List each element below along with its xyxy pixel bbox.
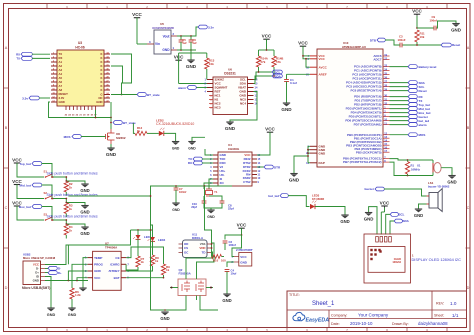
svg-text:K: K <box>100 88 102 92</box>
svg-text:AREF: AREF <box>319 73 327 77</box>
svg-text:GND: GND <box>68 313 77 317</box>
svg-text:TD: TD <box>202 251 206 255</box>
LED LED1 charge <box>133 230 152 239</box>
capacitor C6 1uf <box>189 36 197 50</box>
wire AREF to decoupling cap <box>287 74 311 79</box>
wire alarm to SQW/INT <box>196 87 207 89</box>
svg-text:GND: GND <box>451 28 461 33</box>
svg-text:2019-10-10: 2019-10-10 <box>350 321 373 326</box>
svg-text:buzzer YD-58002: buzzer YD-58002 <box>428 185 450 189</box>
svg-text:VCC: VCC <box>132 12 142 17</box>
svg-text:GND: GND <box>186 64 197 69</box>
svg-text:ATMEGA328P-AU: ATMEGA328P-AU <box>342 45 366 49</box>
net flag BT_state at transistor <box>113 121 136 125</box>
svg-text:100nf: 100nf <box>430 18 437 22</box>
power flag VCC for I2C pullups <box>259 34 275 51</box>
svg-text:CE: CE <box>115 256 119 260</box>
power flag VCC button Top_but <box>12 157 44 177</box>
svg-text:Reset: Reset <box>419 89 427 93</box>
net flag 3.3v to HC-06 <box>22 96 50 100</box>
wire VCC distribution rail <box>68 185 232 197</box>
crystal Y1 12MHz for CH340 <box>204 179 218 196</box>
label side push button 3 <box>47 214 98 218</box>
svg-text:0.1uf: 0.1uf <box>290 81 297 85</box>
net flag D- <box>45 271 62 275</box>
wire Vout rail to 3.3v flag <box>177 27 198 51</box>
ground DS3231 <box>225 92 257 132</box>
svg-text:Your Company: Your Company <box>358 313 389 318</box>
net flag alarm <box>178 86 196 90</box>
ground for C1 <box>281 103 292 112</box>
resistor R13 10k pull-up <box>179 53 215 80</box>
svg-text:GND: GND <box>160 316 169 321</box>
svg-text:1.2k: 1.2k <box>75 293 81 297</box>
svg-text:TEMP: TEMP <box>94 256 102 260</box>
svg-text:VCC: VCC <box>240 255 247 259</box>
capacitor C8 22pf <box>209 196 234 211</box>
svg-text:NC3: NC3 <box>215 106 221 110</box>
capacitor C2 100nf <box>223 235 242 250</box>
wires crystal to MCU XTAL pins <box>390 159 434 177</box>
net flag RX <box>390 95 423 99</box>
power flag VCC near DS3231 <box>174 55 207 84</box>
wire USB VCC rail <box>45 230 131 265</box>
svg-text:buzzer: buzzer <box>364 187 374 191</box>
svg-text:B: B <box>467 126 470 130</box>
switch S2 side push button <box>44 191 54 199</box>
svg-text:GND: GND <box>414 213 423 218</box>
svg-text:GND: GND <box>96 100 102 104</box>
svg-text:REV:: REV: <box>436 302 444 306</box>
svg-text:NC4: NC4 <box>240 102 246 106</box>
net flag Box_but <box>390 111 431 115</box>
net flag Top_but <box>390 103 431 107</box>
resistor R14B 57k <box>272 50 283 76</box>
ground for crystal <box>447 176 456 185</box>
net flag DTR out <box>257 165 281 169</box>
svg-text:TX: TX <box>16 57 20 61</box>
power flag VCC for MCU <box>298 41 310 68</box>
svg-text:GND: GND <box>94 269 102 273</box>
transistor U8 SI2302 MOSFET <box>106 129 126 144</box>
svg-text:22pf: 22pf <box>191 205 197 209</box>
svg-text:1k: 1k <box>155 259 159 263</box>
svg-text:CH340G: CH340G <box>228 147 240 151</box>
resistor R12 1k <box>135 126 147 135</box>
svg-text:1k: 1k <box>166 268 170 272</box>
svg-text:16MHz: 16MHz <box>411 168 420 172</box>
svg-text:D: D <box>467 286 470 290</box>
capacitor C9 100nf <box>417 15 456 30</box>
svg-text:GND: GND <box>172 208 180 212</box>
svg-text:A: A <box>5 46 8 50</box>
resistor R4 1k <box>64 224 73 239</box>
svg-text:GND: GND <box>225 126 236 131</box>
svg-text:TITLE:: TITLE: <box>289 293 300 297</box>
svg-text:/STDBY: /STDBY <box>109 269 120 273</box>
svg-text:1uf: 1uf <box>182 41 186 45</box>
svg-text:CX-3216UBUCK-520D10: CX-3216UBUCK-520D10 <box>156 122 194 126</box>
power flag VCC button Box_but <box>12 200 44 220</box>
svg-text:GND: GND <box>447 180 456 185</box>
svg-text:/CHRG: /CHRG <box>110 263 120 267</box>
ground for R6 <box>68 308 77 317</box>
ground for R3 <box>65 202 89 215</box>
ground for MCU <box>289 174 300 183</box>
svg-text:Box_but: Box_but <box>19 205 31 209</box>
EasyEDA logo <box>293 312 329 323</box>
net flag SCL at pullups <box>272 70 282 74</box>
resistor R3 1k <box>64 203 73 218</box>
svg-text:XC6206P332MR: XC6206P332MR <box>152 26 175 30</box>
svg-text:Mid_but: Mid_but <box>20 183 32 187</box>
svg-text:1k: 1k <box>69 228 73 232</box>
wire charge status rail <box>131 229 153 233</box>
svg-text:D-: D- <box>58 267 61 271</box>
ground for buzzer <box>414 209 423 218</box>
svg-text:VCC: VCC <box>298 41 308 46</box>
wire battery level <box>390 66 409 68</box>
crystal X1 16MHz <box>433 160 452 176</box>
svg-text:SDA: SDA <box>275 74 282 78</box>
svg-text:MOS: MOS <box>64 135 71 139</box>
ground for R2 <box>65 180 89 193</box>
speaker LS1 buzzer YD-58002 <box>384 181 450 211</box>
svg-text:57k: 57k <box>261 60 266 64</box>
IC U6 DS3231 RTC <box>205 67 258 114</box>
net flag SCL <box>390 85 425 89</box>
connector P1 2 PIN PORT <box>227 235 253 267</box>
svg-text:Vout: Vout <box>163 34 171 38</box>
wire button Top_but to resistor <box>53 176 67 181</box>
resistor R2 1k <box>64 181 73 196</box>
net flag Mid_but <box>20 183 53 199</box>
svg-text:Y1: Y1 <box>214 190 218 194</box>
wire VCC pin of charger <box>68 271 87 281</box>
ground below U8 <box>106 144 117 157</box>
power flag VCC at port <box>237 223 247 236</box>
svg-text:GND: GND <box>281 107 292 112</box>
svg-text:GND: GND <box>80 231 89 236</box>
svg-text:C: C <box>5 206 8 210</box>
svg-text:100nF: 100nF <box>398 38 406 42</box>
wire USB GND rail <box>45 280 88 282</box>
net flag D+ <box>45 266 61 270</box>
svg-text:GND: GND <box>188 147 196 151</box>
net flag Reset <box>390 89 427 93</box>
svg-text:LS1: LS1 <box>428 181 434 185</box>
ground for C7 <box>172 203 180 212</box>
net flag buzzer <box>390 115 429 119</box>
svg-text:GND: GND <box>340 219 349 224</box>
svg-text:D+: D+ <box>58 271 62 275</box>
svg-text:HC-06: HC-06 <box>75 45 84 49</box>
wire R7 to CHRG pin <box>126 264 138 270</box>
svg-text:GND: GND <box>319 151 327 155</box>
IC U7 TP4056 charger <box>85 242 129 291</box>
ground rail mid sheet <box>188 137 205 150</box>
wires SCL SDA from DS3231 to flags <box>254 71 275 83</box>
wire LED3 to ground <box>315 207 345 216</box>
wire battery minus through Q2 <box>164 296 218 311</box>
svg-text:CS: CS <box>184 246 188 250</box>
svg-text:VCC: VCC <box>94 276 101 280</box>
resistor R8 1k <box>150 241 159 266</box>
net flag but_led <box>268 194 309 207</box>
svg-text:VCC: VCC <box>265 127 275 132</box>
svg-text:Sheet:: Sheet: <box>434 314 444 318</box>
svg-text:Date:: Date: <box>331 322 340 326</box>
wire TEMP to gnd <box>83 258 88 288</box>
svg-text:TP4056A: TP4056A <box>105 245 118 249</box>
title block <box>287 291 467 328</box>
ground battery minus <box>160 312 169 321</box>
wire CH340 gnd <box>205 149 213 155</box>
svg-text:VCC: VCC <box>412 9 422 14</box>
svg-text:GND: GND <box>172 147 180 151</box>
IC U3 HC-06 bluetooth module <box>51 41 110 116</box>
net flag SDA at OLED <box>390 219 410 234</box>
svg-text:1k: 1k <box>69 207 73 211</box>
wire BT_state to R12 <box>133 123 135 133</box>
svg-text:CTS#: CTS# <box>243 180 251 184</box>
svg-text:R10: R10 <box>213 259 219 263</box>
svg-text:1uf: 1uf <box>192 41 196 45</box>
svg-text:GND: GND <box>207 215 215 219</box>
transistor Q2 FS8205A dual mosfet <box>170 266 213 296</box>
svg-text:FS8205A: FS8205A <box>179 271 192 275</box>
svg-text:ADC7: ADC7 <box>373 58 381 62</box>
net flag Reset top <box>441 43 460 47</box>
net flag Battery level <box>408 65 437 69</box>
label side push button 2 <box>47 193 98 197</box>
svg-text:Micro USB-B SP_CA0648: Micro USB-B SP_CA0648 <box>23 256 56 260</box>
svg-text:PROG: PROG <box>94 263 104 267</box>
ground for crystal caps <box>207 208 215 219</box>
net flag BT_state at HC-06 <box>111 93 160 97</box>
net flag SDA at pullups <box>272 74 282 78</box>
net flag Box_but <box>19 205 53 221</box>
svg-text:VCC: VCC <box>262 34 272 39</box>
wire CE pin loop <box>126 247 163 258</box>
svg-text:VCC: VCC <box>319 57 326 61</box>
svg-text:BT_state: BT_state <box>123 121 136 125</box>
net flag TX to CH340 <box>188 157 213 161</box>
net flag TX <box>16 57 50 61</box>
resistor R14A 57k <box>256 50 268 72</box>
net flag SDA <box>390 81 426 85</box>
power flag VCC feeding regulator <box>132 12 147 44</box>
svg-text:GND: GND <box>222 298 231 303</box>
svg-text:DAP: DAP <box>319 161 325 165</box>
capacitor C5 1uf <box>179 36 187 50</box>
wire USB shell to ground <box>45 277 51 309</box>
IC U4 CH340G usb-serial <box>210 143 261 186</box>
svg-text:alarm: alarm <box>178 86 186 90</box>
svg-text:MOS: MOS <box>419 133 426 137</box>
ground for LED2 <box>172 142 180 151</box>
svg-text:22pf: 22pf <box>228 207 234 211</box>
power flag VCC button Mid_but <box>12 179 44 199</box>
svg-text:alarm: alarm <box>419 123 427 127</box>
IC U5 XC6206P332MR regulator <box>147 22 177 54</box>
svg-text:DTB: DTB <box>370 38 377 42</box>
label side push button 1 <box>47 171 98 175</box>
ground for regulator output caps <box>186 50 197 69</box>
svg-text:VDD: VDD <box>199 246 205 250</box>
svg-text:100: 100 <box>221 259 226 263</box>
svg-text:RX: RX <box>188 161 192 165</box>
svg-text:DW01-A: DW01-A <box>192 236 204 240</box>
svg-text:10k: 10k <box>420 35 425 39</box>
svg-text:PD7 (PCINT23AIN1): PD7 (PCINT23AIN1) <box>354 123 382 127</box>
svg-text:GND: GND <box>33 279 39 283</box>
svg-text:EasyEDA: EasyEDA <box>306 317 330 323</box>
IC U11 DW01-A battery protection <box>179 232 212 257</box>
resistor R11 10k <box>415 30 425 45</box>
capacitor C4 10uf <box>225 268 237 294</box>
svg-text:LED3: LED3 <box>312 193 320 197</box>
wires MCU ground pins to ground <box>294 146 310 173</box>
net flag MOS <box>390 133 426 137</box>
net flag RX to CH340 <box>188 161 213 165</box>
power flag VCC reset pullup <box>412 9 422 29</box>
net flag buzzer <box>364 187 384 191</box>
connector DISPLAY OLED 128X64 I2C <box>364 234 461 283</box>
net flag 3.3v output <box>198 25 214 29</box>
svg-text:PB7 (PCINT7XTAL2TOSC2): PB7 (PCINT7XTAL2TOSC2) <box>343 160 382 164</box>
ground for OLED <box>364 207 377 235</box>
svg-text:GND: GND <box>106 152 117 157</box>
resistor R9 1k <box>161 258 170 275</box>
svg-text:PB5 (SCKPCINT5): PB5 (SCKPCINT5) <box>356 150 382 154</box>
svg-text:Side push button and 8mm holes: Side push button and 8mm holes <box>47 171 98 175</box>
net flag Top_but <box>19 162 53 178</box>
svg-text:1/1: 1/1 <box>452 313 459 318</box>
resistor R7 1k <box>136 239 145 267</box>
wire button Mid_but to resistor <box>53 198 67 203</box>
net flag SCL at OLED <box>386 213 405 235</box>
svg-text:BT_state: BT_state <box>147 93 160 97</box>
svg-text:PC6 (RESETPCINT14): PC6 (RESETPCINT14) <box>350 89 381 93</box>
svg-text:GND: GND <box>162 48 170 52</box>
capacitor C7 100nf <box>174 186 187 203</box>
svg-text:GND: GND <box>240 260 248 264</box>
svg-text:GND: GND <box>289 178 300 183</box>
svg-text:USB2: USB2 <box>23 252 31 256</box>
svg-text:3.3v: 3.3v <box>22 96 28 100</box>
svg-text:DISPLAY OLED 128X64 I2C: DISPLAY OLED 128X64 I2C <box>412 257 462 262</box>
ground for R4 <box>65 223 89 236</box>
svg-text:Drawn By:: Drawn By: <box>392 322 409 326</box>
svg-text:daizykhanna08: daizykhanna08 <box>418 321 448 326</box>
svg-text:A: A <box>467 46 470 50</box>
resistor R6 1.2k prog <box>70 281 81 309</box>
wire reset node <box>403 44 442 46</box>
IC U10 ATMEGA328P-AU microcontroller <box>306 41 389 167</box>
wire battery rail <box>68 196 164 310</box>
net flag RX <box>16 52 50 56</box>
svg-text:D: D <box>5 286 8 290</box>
svg-text:Sheet_1: Sheet_1 <box>312 301 335 307</box>
net flag TX <box>390 99 423 103</box>
svg-text:AVCC: AVCC <box>319 65 328 69</box>
svg-text:VCC: VCC <box>237 223 247 228</box>
svg-text:3.3v: 3.3v <box>208 25 214 29</box>
wire HC-06 bottom ground bus <box>49 102 112 118</box>
capacitor C3 100nF in DTR line <box>398 35 406 48</box>
svg-text:57k: 57k <box>276 60 281 64</box>
svg-text:1.0: 1.0 <box>450 301 457 306</box>
svg-text:KT-0603R: KT-0603R <box>312 197 324 201</box>
net flag Mid_but <box>390 107 431 111</box>
connector USB2 Micro USB-B SP_CA0648 <box>22 252 56 290</box>
svg-text:Company:: Company: <box>331 313 347 317</box>
net flag but_led <box>390 119 430 123</box>
svg-text:Reset: Reset <box>452 43 460 47</box>
svg-text:Vin: Vin <box>155 42 160 46</box>
wire BT_state node to transistor drain <box>110 118 112 130</box>
svg-text:Top_but: Top_but <box>19 162 31 166</box>
LED LED4 charge <box>148 230 166 242</box>
svg-text:GND: GND <box>47 313 56 317</box>
svg-text:100nf: 100nf <box>229 243 236 247</box>
svg-text:1k: 1k <box>141 260 145 264</box>
svg-text:GND: GND <box>364 217 374 222</box>
wire LED2 to ground <box>164 133 176 141</box>
capacitor C1 0.1uf <box>284 78 297 103</box>
svg-text:Battery level: Battery level <box>419 65 437 69</box>
wire button Box_but to resistor <box>53 219 67 224</box>
ground for LED3 <box>340 215 349 224</box>
resistor R10 100Ohm <box>205 186 227 263</box>
wire DW01 to gate of Q2 <box>186 243 214 272</box>
ground top right <box>451 24 461 33</box>
power flag VCC for CH340 <box>257 127 276 156</box>
net flag DTB <box>370 38 400 45</box>
wire R9 to BAT pin <box>126 275 164 279</box>
svg-text:DS3231: DS3231 <box>224 72 236 76</box>
net flag alarm <box>390 123 427 127</box>
capacitor C10 22pf <box>191 196 211 209</box>
switch S3 side push button <box>44 212 54 220</box>
svg-text:100nf: 100nf <box>179 190 186 194</box>
ground for C4 <box>222 294 231 303</box>
svg-text:SCL: SCL <box>399 213 405 217</box>
switch S1 side push button <box>44 169 54 177</box>
svg-text:BAT: BAT <box>114 276 120 280</box>
LED LED3 KT-0603R <box>310 193 324 209</box>
svg-text:LED4: LED4 <box>158 238 166 242</box>
wires HC-06 right side loop <box>111 54 132 95</box>
svg-text:128x64: 128x64 <box>392 260 401 264</box>
svg-text:SDA: SDA <box>403 219 410 223</box>
svg-text:10uf: 10uf <box>231 271 237 275</box>
svg-text:SI2302: SI2302 <box>116 136 126 140</box>
svg-text:C: C <box>467 206 470 210</box>
svg-text:1k: 1k <box>137 129 141 133</box>
svg-text:but_led: but_led <box>268 194 279 198</box>
ground for USB shell <box>47 308 56 317</box>
wire PROG to R6 <box>72 264 88 280</box>
svg-text:DTR: DTR <box>274 165 281 169</box>
resistor R1 1M <box>405 160 420 176</box>
net flag MOS at gate <box>64 135 106 139</box>
LED LED2 CX-3216UBUCK-520D10 <box>147 119 194 136</box>
wire R8 to STDBY pin <box>126 266 152 271</box>
svg-text:Micro USB-B(SMT): Micro USB-B(SMT) <box>22 286 50 290</box>
ground for TEMP <box>79 288 86 291</box>
